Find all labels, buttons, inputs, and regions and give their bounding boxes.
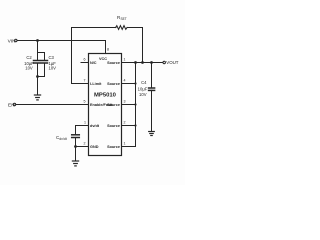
svg-text:10V: 10V <box>49 66 57 71</box>
wire VOUT row <box>122 62 163 64</box>
svg-text:2: 2 <box>124 121 126 125</box>
ground dvdt <box>72 161 78 166</box>
ground caps <box>34 95 40 100</box>
terminal VOUT <box>163 61 165 63</box>
svg-text:2: 2 <box>84 142 86 146</box>
wire cap top jog to C3 <box>38 53 45 61</box>
capacitor Cdvdt plates <box>72 134 80 136</box>
svg-text:GND: GND <box>90 145 99 149</box>
ground C4 <box>149 132 155 136</box>
terminal EN <box>13 103 15 105</box>
wire source stub 4 <box>122 125 136 127</box>
node junction bus/source3 <box>134 103 136 105</box>
wire I-Limit pin 7 to Rset <box>72 28 117 84</box>
wire N/C pin 6 stub <box>81 62 89 64</box>
svg-text:dv/dt: dv/dt <box>90 124 100 128</box>
svg-text:dv/dt: dv/dt <box>59 137 66 141</box>
svg-text:Source: Source <box>107 103 120 107</box>
node junction bus/source2 <box>134 82 136 84</box>
terminal VIN <box>15 39 17 41</box>
svg-text:C4: C4 <box>141 80 147 85</box>
wire dv/dt pin to Cdvdt <box>76 126 89 135</box>
capacitor C2 plates <box>34 60 40 62</box>
svg-text:5: 5 <box>84 100 86 104</box>
capacitor C4 plates <box>149 87 155 89</box>
wire cap branch riser <box>37 41 39 61</box>
wire source stub 2 <box>122 83 136 85</box>
svg-text:VCC: VCC <box>99 57 107 61</box>
wire C4 to ground <box>151 90 153 131</box>
wire VIN to VCC pin 8 <box>17 41 105 54</box>
svg-text:4: 4 <box>124 79 126 83</box>
node junction Rset/VOUT <box>141 61 144 64</box>
svg-text:VIN: VIN <box>8 39 17 45</box>
node junction bus/source4 <box>134 124 136 126</box>
svg-text:Source: Source <box>107 145 120 149</box>
svg-text:EN: EN <box>8 103 15 109</box>
IC U1 MP5010 body <box>89 54 122 156</box>
svg-text:N/C: N/C <box>90 61 97 65</box>
capacitor C4 riser <box>151 63 153 89</box>
svg-text:1: 1 <box>124 142 126 146</box>
svg-text:Source: Source <box>107 124 120 128</box>
node junction VIN/caps <box>36 39 39 42</box>
svg-text:10V: 10V <box>139 92 147 97</box>
svg-text:1: 1 <box>124 58 126 62</box>
svg-text:Source: Source <box>107 82 120 86</box>
node junction C4/VOUT <box>150 61 153 64</box>
svg-text:C3: C3 <box>49 55 55 60</box>
wire Cdvdt bottom to GND pin and ground <box>75 138 77 161</box>
svg-text:VOUT: VOUT <box>166 60 179 65</box>
svg-text:7: 7 <box>84 79 86 83</box>
wire C3 bottom jog <box>38 63 45 77</box>
capacitor C3 plates <box>41 60 47 62</box>
svg-text:10µF: 10µF <box>138 86 148 91</box>
svg-text:10V: 10V <box>25 66 33 71</box>
wire C2 bottom riser to ground <box>37 63 39 95</box>
svg-text:MP5010: MP5010 <box>94 93 117 99</box>
svg-text:C2: C2 <box>26 55 32 60</box>
svg-text:3: 3 <box>124 100 126 104</box>
node junction Cdvdt/GND <box>74 145 77 148</box>
wire source stub 3 <box>122 104 136 106</box>
resistor RSET zigzag <box>116 26 128 30</box>
svg-text:SET: SET <box>121 17 127 21</box>
svg-text:I-Limit: I-Limit <box>90 82 102 86</box>
wire EN to Enable/Fault pin 5 <box>16 104 89 106</box>
svg-text:Source: Source <box>107 61 120 65</box>
node junction caps bottom <box>36 75 39 78</box>
wire source bus <box>122 63 136 147</box>
svg-text:8: 8 <box>107 48 109 52</box>
svg-text:6: 6 <box>84 58 86 62</box>
node junction bus/VOUT <box>134 61 137 64</box>
svg-text:1: 1 <box>84 121 86 125</box>
wire Rset right and drop to VOUT <box>127 28 142 63</box>
